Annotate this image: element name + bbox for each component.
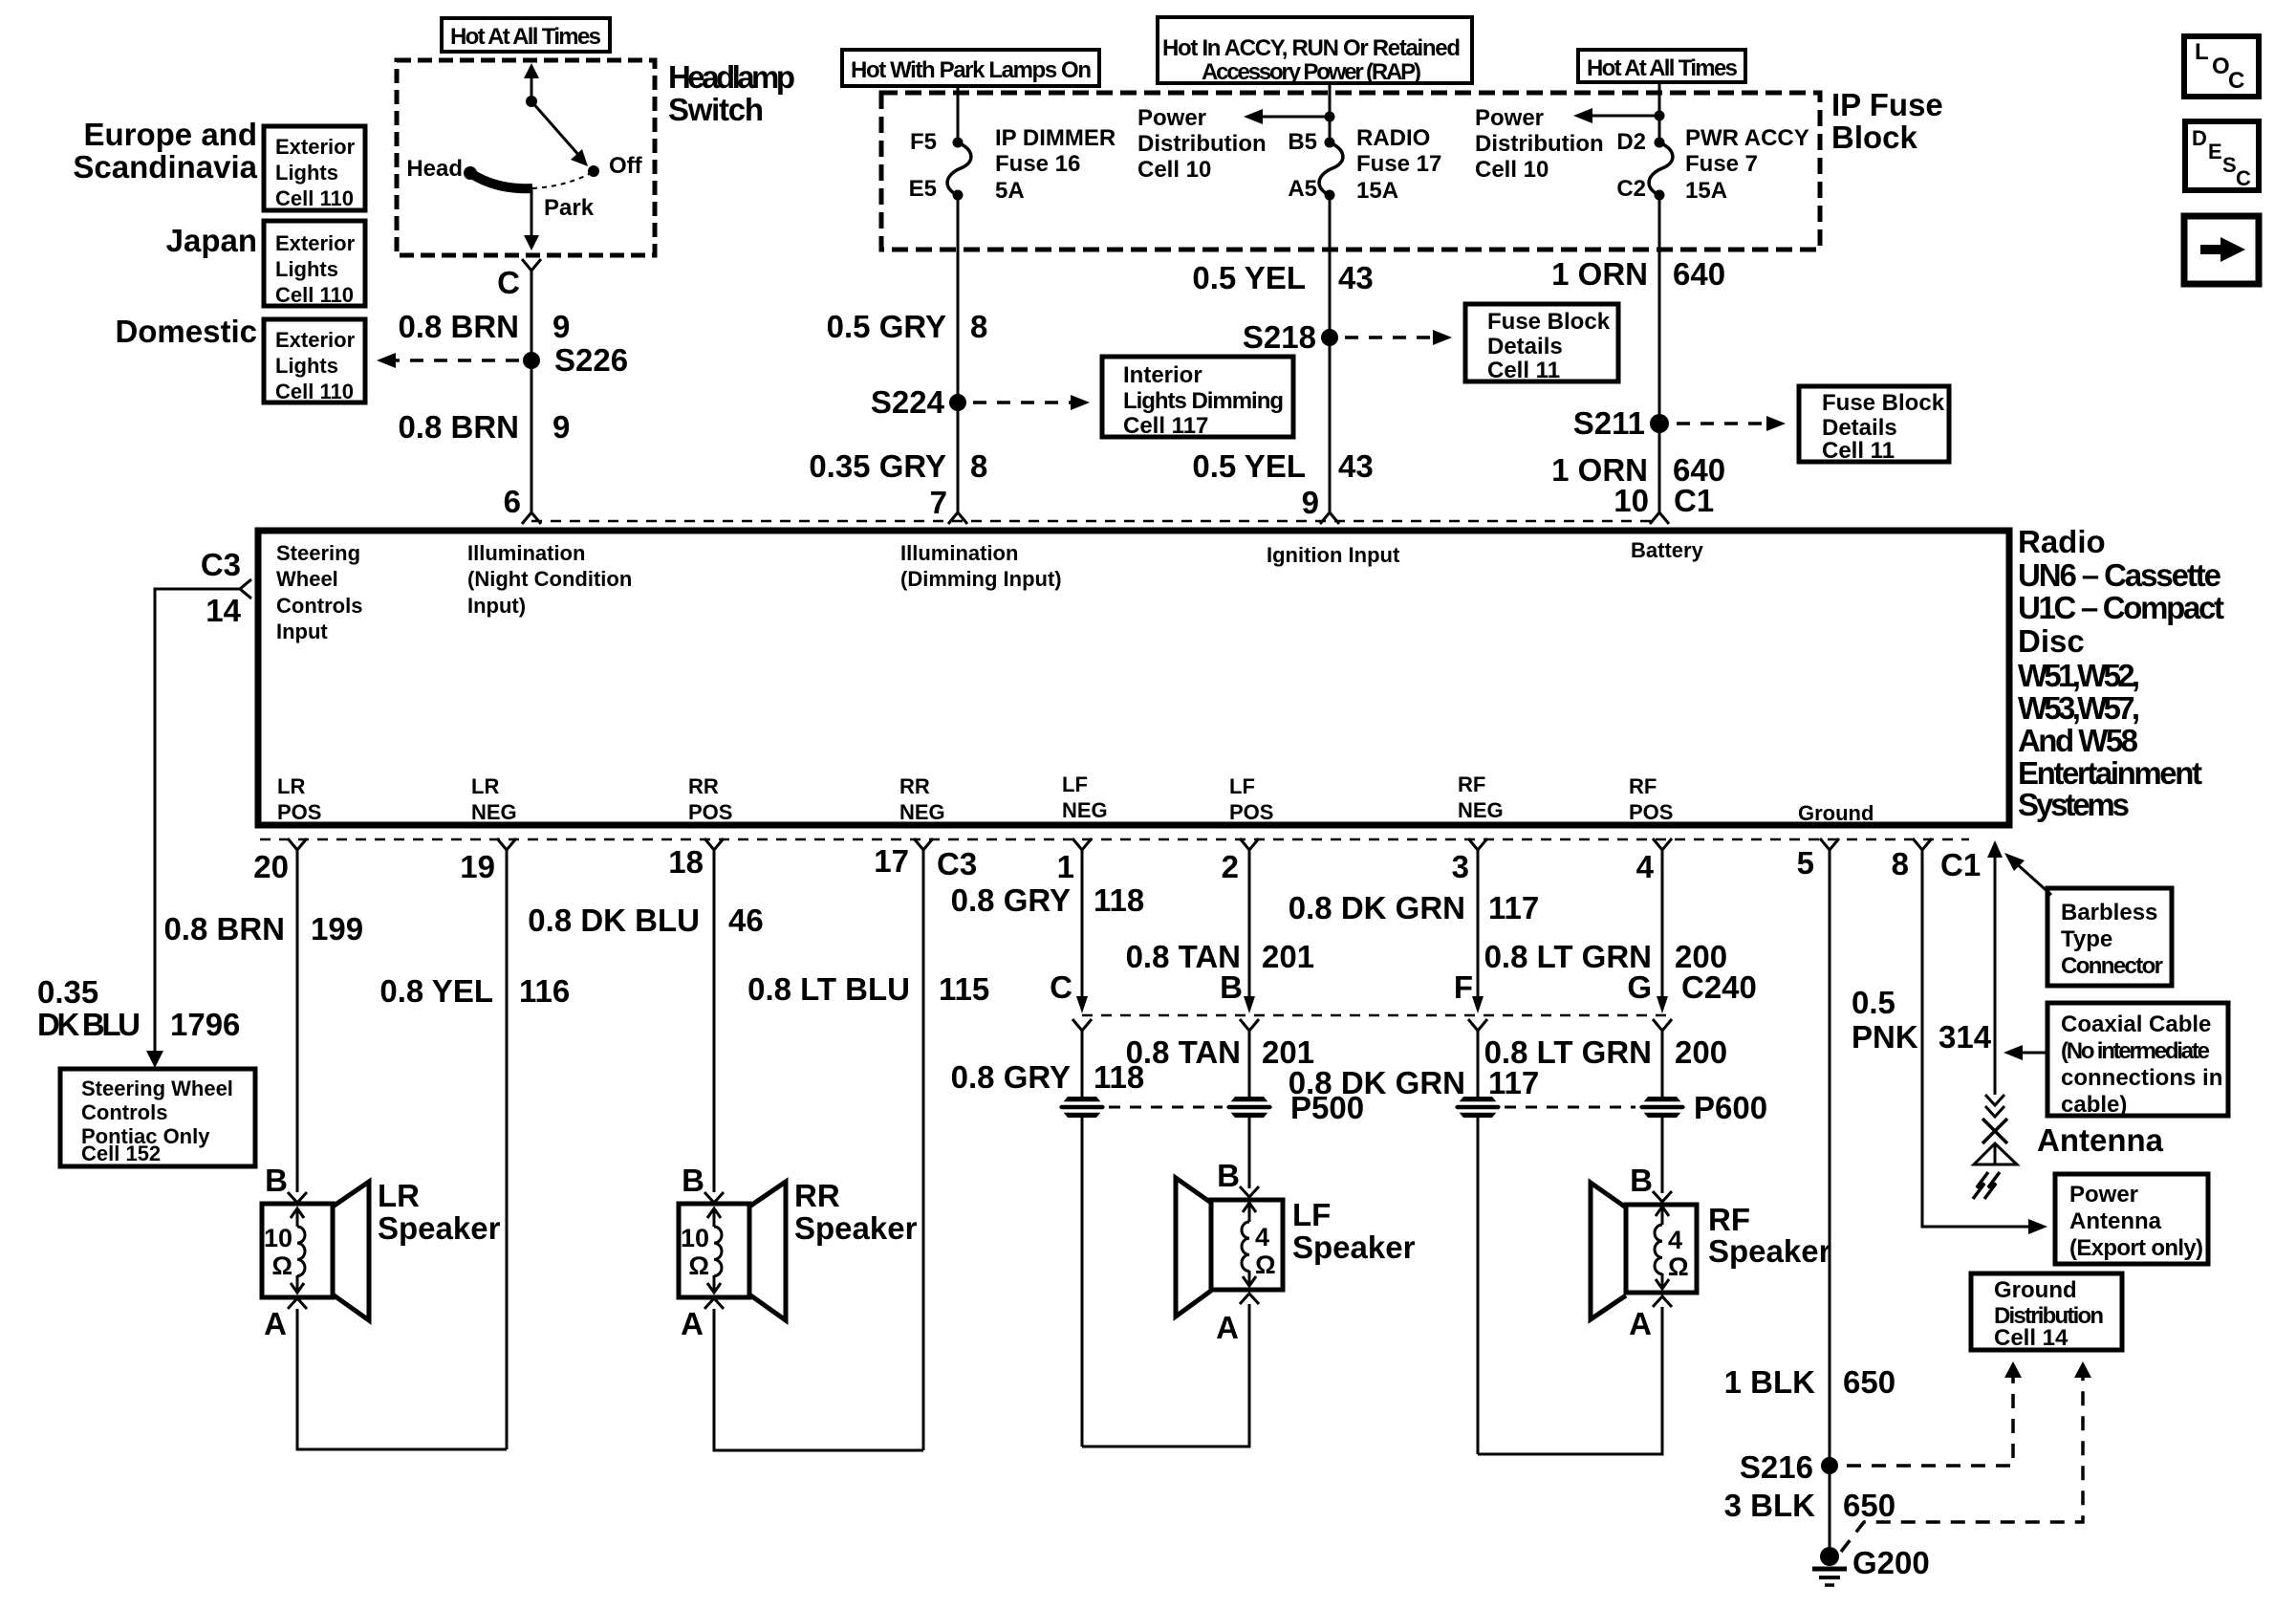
svg-text:C2: C2 — [1616, 176, 1646, 202]
arrowhead up to ground distribution (left) — [2004, 1361, 2022, 1378]
svg-text:0.8 YEL: 0.8 YEL — [379, 973, 493, 1009]
svg-text:0.8 DK BLU: 0.8 DK BLU — [528, 903, 700, 938]
connector fork at LR speaker pin A — [288, 1298, 307, 1309]
wire: LF POS 0.8 TAN 201 upper — [1248, 850, 1251, 1000]
junction dot to power distribution arrow (radio fuse) — [1325, 112, 1335, 122]
wire: feed from RAP box into fuse block — [1329, 83, 1332, 142]
power source label: Hot At All Times (headlamp switch feed) — [442, 18, 610, 52]
svg-text:Radio: Radio — [2018, 524, 2106, 559]
svg-text:15A: 15A — [1685, 178, 1727, 204]
svg-text:S224: S224 — [871, 384, 945, 420]
svg-text:201: 201 — [1262, 939, 1314, 974]
svg-text:4: 4 — [1668, 1226, 1682, 1254]
svg-text:RADIO: RADIO — [1356, 125, 1430, 151]
connector fork at radio pin 6 — [522, 512, 541, 524]
svg-text:Cell 117: Cell 117 — [1123, 413, 1208, 439]
svg-text:Lights: Lights — [275, 257, 338, 281]
wire: LF speaker return — [1082, 1304, 1249, 1447]
wire: RR NEG 0.8 LT BLU 115 — [922, 850, 925, 1450]
wire: 0.5 PNK 314 power antenna feed — [1922, 850, 2032, 1227]
svg-text:8: 8 — [1892, 846, 1909, 881]
dashed reference from G200 to ground distribution — [1841, 1378, 2083, 1552]
arrowhead into steering wheel controls box — [146, 1051, 163, 1068]
arrowhead into Fuse Block Details box — [1433, 330, 1452, 345]
ground G200 — [1812, 1547, 1847, 1585]
svg-text:POS: POS — [277, 800, 321, 824]
svg-text:B: B — [1630, 1163, 1653, 1198]
svg-text:118: 118 — [1094, 882, 1144, 918]
bottom connector dashed line at radio — [260, 838, 1969, 841]
svg-text:Illumination: Illumination — [467, 541, 585, 565]
LR speaker — [262, 1182, 369, 1320]
RR speaker impedance label 10 ohm — [681, 1224, 709, 1280]
connector fork at LR speaker pin B — [288, 1192, 307, 1203]
svg-text:Ω: Ω — [1255, 1251, 1276, 1279]
svg-text:A5: A5 — [1288, 176, 1317, 202]
svg-text:115: 115 — [939, 971, 989, 1007]
svg-text:Domestic: Domestic — [115, 314, 257, 349]
svg-text:Connector: Connector — [2061, 953, 2163, 979]
svg-text:14: 14 — [206, 593, 241, 628]
svg-text:Interior: Interior — [1123, 362, 1202, 388]
svg-text:9: 9 — [552, 309, 570, 344]
svg-text:S218: S218 — [1243, 319, 1316, 355]
svg-text:5: 5 — [1797, 845, 1814, 881]
svg-text:POS: POS — [1229, 800, 1273, 824]
svg-text:640: 640 — [1673, 256, 1725, 292]
svg-text:Wheel: Wheel — [276, 567, 338, 591]
svg-text:Accessory Power (RAP): Accessory Power (RAP) — [1202, 59, 1421, 85]
svg-text:S216: S216 — [1740, 1449, 1813, 1485]
RR speaker name label — [794, 1178, 918, 1246]
svg-text:650: 650 — [1843, 1488, 1895, 1523]
reference arrow to Power Distribution Cell 10 (left) — [1257, 116, 1330, 119]
wire: LF NEG from C240 to P500 — [1081, 1031, 1084, 1097]
radio pin function label: RR POS — [688, 774, 732, 824]
LOC reference box — [2184, 36, 2259, 97]
splice S218 — [1321, 329, 1338, 346]
svg-text:0.8 BRN: 0.8 BRN — [398, 409, 519, 445]
connector fork at RR speaker pin A — [704, 1298, 724, 1309]
arrowhead up to ground distribution (right) — [2074, 1361, 2091, 1378]
antenna symbol — [1973, 1119, 2017, 1199]
wire: RR speaker return — [714, 1309, 923, 1450]
splice S216 — [1821, 1457, 1838, 1474]
headlamp switch dashed outline — [397, 60, 655, 255]
svg-text:UN6 – Cassette: UN6 – Cassette — [2018, 557, 2221, 593]
svg-text:9: 9 — [1302, 485, 1319, 520]
connector fork at switch pin C — [522, 259, 541, 271]
svg-text:Illumination: Illumination — [900, 541, 1018, 565]
power source label: Hot With Park Lamps On — [842, 50, 1099, 86]
reference arrow from barbless connector note to coax — [2014, 861, 2051, 895]
connector chevron at radio C3 — [240, 579, 251, 598]
Exterior Lights Cell 110 box (Europe and Scandinavia) — [264, 126, 365, 210]
wire: steering wheel controls from radio C3 pin 14 — [155, 589, 240, 1056]
svg-text:Systems: Systems — [2018, 787, 2130, 822]
svg-text:117: 117 — [1488, 1065, 1539, 1100]
svg-text:199: 199 — [311, 911, 363, 946]
double chevron at antenna end of coax — [1985, 1095, 2004, 1105]
svg-text:1 BLK: 1 BLK — [1724, 1364, 1816, 1400]
svg-text:POS: POS — [688, 800, 732, 824]
power source label: Hot At All Times (right) — [1578, 50, 1745, 82]
svg-text:LF: LF — [1292, 1197, 1331, 1232]
svg-text:W51,W52,: W51,W52, — [2018, 658, 2140, 693]
wire: RR POS 0.8 DK BLU 46 — [713, 850, 716, 1192]
svg-text:(Export only): (Export only) — [2069, 1235, 2203, 1261]
wire: radio ground 1 BLK 650 — [1829, 850, 1831, 1556]
svg-text:P600: P600 — [1694, 1090, 1767, 1125]
wire: RF POS from P600 to RF speaker pin B — [1661, 1118, 1664, 1193]
wire: 0.5 YEL 43 from fuse 17 to radio pin 9 — [1329, 195, 1332, 512]
svg-text:RF: RF — [1629, 774, 1657, 798]
svg-text:RR: RR — [794, 1178, 840, 1213]
svg-text:Antenna: Antenna — [2037, 1122, 2164, 1158]
svg-text:A: A — [1216, 1310, 1239, 1345]
svg-text:0.5: 0.5 — [1852, 985, 1895, 1020]
svg-text:(Night Condition: (Night Condition — [467, 567, 632, 591]
wire: Park output down — [531, 188, 533, 239]
svg-text:C3: C3 — [201, 547, 241, 582]
svg-text:43: 43 — [1338, 448, 1374, 484]
svg-text:Fuse 17: Fuse 17 — [1356, 151, 1441, 177]
radio pin function label: LF NEG — [1062, 772, 1108, 822]
svg-text:C: C — [497, 265, 520, 300]
RR speaker — [679, 1182, 786, 1320]
radio pin function label: LR POS — [277, 774, 321, 824]
wire: RF NEG 0.8 DK GRN 117 upper — [1477, 850, 1480, 1000]
wire: RF POS 0.8 LT GRN 200 upper — [1661, 850, 1664, 1000]
dashed reference arrow from S224 to Interior Lights Dimming — [973, 401, 1072, 404]
svg-text:S226: S226 — [554, 342, 628, 378]
svg-text:IP Fuse: IP Fuse — [1831, 87, 1943, 122]
dashed reference arrow from S218 to Fuse Block Details — [1345, 336, 1434, 339]
radio pin function label: RF POS — [1629, 774, 1673, 824]
svg-text:Cell 14: Cell 14 — [1994, 1325, 2069, 1351]
RF speaker — [1591, 1183, 1697, 1319]
svg-text:Switch: Switch — [668, 92, 764, 127]
svg-text:0.35: 0.35 — [37, 974, 98, 1010]
junction dot to power distribution arrow (pwr accy fuse) — [1655, 111, 1665, 121]
Barbless Type Connector box — [2047, 888, 2172, 986]
wire: RF speaker return — [1478, 1307, 1662, 1454]
svg-text:2: 2 — [1222, 849, 1239, 884]
svg-text:20: 20 — [253, 849, 289, 884]
svg-text:Distribution: Distribution — [1137, 131, 1267, 157]
svg-text:C: C — [2236, 166, 2251, 190]
svg-text:Japan: Japan — [166, 223, 257, 258]
svg-text:Exterior: Exterior — [275, 328, 356, 352]
splice S211 — [1650, 414, 1669, 433]
svg-text:Power: Power — [1475, 105, 1544, 131]
svg-text:0.8 BRN: 0.8 BRN — [163, 911, 285, 946]
headlamp switch label — [668, 59, 795, 127]
arrowhead up into radio C1 — [1987, 840, 2003, 858]
svg-text:(Dimming Input): (Dimming Input) — [900, 567, 1062, 591]
svg-text:Input: Input — [276, 620, 328, 643]
fuse F17 RADIO 15A — [1319, 138, 1343, 201]
svg-text:118: 118 — [1094, 1059, 1144, 1095]
svg-text:0.8 LT BLU: 0.8 LT BLU — [747, 971, 910, 1007]
svg-text:Fuse Block: Fuse Block — [1487, 309, 1611, 335]
svg-text:A: A — [1629, 1306, 1652, 1341]
dashed reference line from S226 to Domestic exterior lights — [394, 359, 519, 362]
svg-text:0.8 BRN: 0.8 BRN — [398, 309, 519, 344]
wire: LR speaker return — [297, 1309, 507, 1449]
dashed reference arrow from S211 to Fuse Block Details — [1677, 422, 1768, 425]
svg-text:Hot In ACCY, RUN Or Retained: Hot In ACCY, RUN Or Retained — [1162, 35, 1461, 61]
svg-text:Details: Details — [1487, 334, 1563, 359]
connector fork at radio pin 4 — [1653, 838, 1672, 850]
svg-text:Steering: Steering — [276, 541, 360, 565]
connector fork at RF speaker pin A — [1653, 1296, 1672, 1307]
svg-text:Cell 152: Cell 152 — [81, 1142, 161, 1165]
svg-text:B5: B5 — [1288, 129, 1317, 155]
RF speaker name label — [1708, 1202, 1831, 1269]
Exterior Lights Cell 110 box (Domestic) — [264, 319, 365, 403]
svg-text:Fuse 16: Fuse 16 — [995, 151, 1080, 177]
wire: LF NEG from P500 down to return — [1081, 1118, 1084, 1447]
Exterior Lights Cell 110 box (Japan) — [264, 221, 365, 307]
arrowhead up at switch feed — [524, 63, 539, 78]
svg-text:Hot At All Times: Hot At All Times — [450, 24, 601, 50]
wire: LR POS 0.8 BRN 199 — [296, 850, 299, 1192]
svg-text:Hot With Park Lamps On: Hot With Park Lamps On — [851, 57, 1092, 83]
svg-text:LR: LR — [277, 774, 305, 798]
splice S224 — [949, 394, 966, 411]
svg-text:Ground: Ground — [1798, 801, 1874, 825]
Off contact — [588, 165, 599, 177]
svg-text:B: B — [265, 1163, 288, 1198]
svg-text:46: 46 — [728, 903, 764, 938]
svg-text:1796: 1796 — [170, 1007, 240, 1042]
svg-text:8: 8 — [970, 309, 987, 344]
dashed tie line between P600 halves — [1505, 1106, 1635, 1109]
fuse F7 PWR ACCY 15A — [1649, 138, 1673, 201]
svg-text:C3: C3 — [937, 846, 977, 881]
svg-text:Power: Power — [1137, 105, 1206, 131]
svg-text:7: 7 — [930, 485, 947, 520]
wire: 0.8 BRN 9 from S226 to radio pin 6 — [531, 360, 533, 512]
svg-text:10: 10 — [681, 1224, 709, 1252]
svg-text:Lights Dimming: Lights Dimming — [1123, 388, 1284, 414]
switch wiper arc (Head to Park) — [470, 173, 532, 188]
svg-text:LR: LR — [471, 774, 499, 798]
svg-text:Controls: Controls — [81, 1100, 167, 1124]
svg-text:RF: RF — [1708, 1202, 1750, 1237]
reference arrow to Power Distribution Cell 10 (right) — [1587, 115, 1659, 118]
svg-text:117: 117 — [1488, 890, 1539, 925]
svg-text:Exterior: Exterior — [275, 231, 356, 255]
dashed reference from S216 to ground distribution — [1847, 1378, 2013, 1466]
svg-text:3: 3 — [1452, 849, 1469, 884]
svg-text:RF: RF — [1458, 772, 1485, 796]
wire label 0.35 DK BLU — [37, 974, 141, 1042]
connector fork at RF speaker pin B — [1653, 1191, 1672, 1202]
radio pin function label: Illumination (Night Condition Input) — [467, 541, 632, 618]
wire: RF NEG from C240 to P600 — [1477, 1031, 1480, 1097]
svg-text:43: 43 — [1338, 260, 1374, 295]
arrowhead into Fuse Block Details box (lower) — [1766, 416, 1786, 431]
svg-text:8: 8 — [970, 448, 987, 484]
svg-text:Details: Details — [1822, 415, 1897, 441]
svg-text:17: 17 — [874, 843, 909, 879]
radio pin function label: RF NEG — [1458, 772, 1504, 822]
radio component box — [258, 531, 2009, 825]
svg-text:Power: Power — [2069, 1182, 2138, 1207]
Head contact — [464, 166, 477, 180]
power source label: Hot In ACCY, RUN Or Retained Accessory Power (RAP) — [1158, 17, 1472, 85]
svg-text:116: 116 — [519, 973, 570, 1009]
connector fork at radio pin 17 — [914, 838, 933, 850]
svg-text:4: 4 — [1636, 849, 1655, 884]
RF speaker impedance label 4 ohm — [1668, 1226, 1689, 1281]
svg-text:Ω: Ω — [271, 1251, 292, 1280]
svg-text:NEG: NEG — [471, 800, 517, 824]
svg-text:Cell 10: Cell 10 — [1137, 157, 1211, 183]
radio pin function label: Steering Wheel Controls Input — [276, 541, 362, 643]
Coaxial Cable note box — [2047, 1003, 2228, 1118]
svg-text:0.5 YEL: 0.5 YEL — [1192, 448, 1306, 484]
arrowhead on switch arm — [571, 149, 588, 166]
LF speaker name label — [1292, 1197, 1416, 1265]
svg-text:Battery: Battery — [1631, 538, 1704, 562]
svg-text:Distribution: Distribution — [1475, 131, 1604, 157]
LR speaker name label — [378, 1178, 501, 1246]
svg-text:Ignition Input: Ignition Input — [1267, 543, 1400, 567]
in-line connector P500 half on LF POS — [1224, 1097, 1274, 1118]
svg-text:G200: G200 — [1852, 1545, 1930, 1580]
svg-text:0.8 GRY: 0.8 GRY — [951, 1059, 1071, 1095]
svg-text:Exterior: Exterior — [275, 135, 356, 159]
radio pin function label: RR NEG — [899, 774, 945, 824]
Interior Lights Dimming Cell 117 box — [1102, 357, 1293, 439]
svg-text:Ω: Ω — [688, 1251, 709, 1280]
svg-text:6: 6 — [504, 484, 521, 519]
Fuse Block Details Cell 11 box (upper) — [1465, 304, 1618, 383]
reference arrow from coaxial cable note to coax — [2019, 1052, 2046, 1055]
fork below C240 pin G — [1653, 1019, 1672, 1031]
fuse F17 value labels — [1356, 125, 1441, 204]
IP Fuse Block label — [1831, 87, 1943, 155]
fork below C240 pin B — [1240, 1019, 1259, 1031]
connector fork at radio pin 7 — [948, 512, 967, 524]
svg-text:Input): Input) — [467, 594, 526, 618]
connector fork at radio pin 8 — [1913, 838, 1932, 850]
svg-text:NEG: NEG — [1458, 798, 1504, 822]
connector fork at LF speaker pin A — [1240, 1294, 1259, 1304]
top connector C1 dashed line at radio — [531, 520, 1659, 523]
connector fork at radio pin 5 — [1820, 838, 1839, 850]
svg-text:Controls: Controls — [276, 594, 362, 618]
svg-text:IP DIMMER: IP DIMMER — [995, 125, 1116, 151]
coaxial cable from antenna to radio C1 — [1994, 856, 1997, 1095]
Power Distribution Cell 10 label (right) — [1475, 105, 1604, 183]
svg-text:And W58: And W58 — [2018, 723, 2138, 758]
connector fork at radio pin 9 — [1320, 512, 1339, 524]
arrowhead to Domestic exterior lights — [377, 353, 396, 368]
wire: RF NEG from P600 down to return — [1477, 1118, 1480, 1454]
svg-text:Coaxial Cable: Coaxial Cable — [2061, 1012, 2211, 1037]
svg-text:Cell 110: Cell 110 — [275, 380, 354, 403]
svg-text:Speaker: Speaker — [794, 1210, 918, 1246]
svg-text:Disc: Disc — [2018, 623, 2085, 659]
svg-text:1: 1 — [1057, 849, 1074, 884]
radio component name label — [2018, 524, 2224, 822]
svg-text:Type: Type — [2061, 926, 2112, 952]
svg-text:0.35 GRY: 0.35 GRY — [809, 448, 946, 484]
LR speaker impedance label 10 ohm — [264, 1224, 292, 1280]
Power Distribution Cell 10 label (left) — [1137, 105, 1267, 183]
svg-text:G: G — [1627, 969, 1652, 1005]
svg-text:C: C — [1050, 969, 1072, 1005]
forward arrow reference box — [2184, 216, 2259, 284]
svg-text:Entertainment: Entertainment — [2018, 755, 2202, 791]
arrowhead into Interior Lights Dimming box — [1071, 395, 1090, 410]
wire: LF POS from P500 to LF speaker pin B — [1248, 1118, 1251, 1188]
connector fork at radio pin 10 — [1650, 512, 1669, 524]
svg-text:Hot At All Times: Hot At All Times — [1587, 55, 1738, 81]
svg-text:Cell 11: Cell 11 — [1487, 358, 1560, 383]
svg-text:C1: C1 — [1940, 847, 1981, 882]
LF speaker — [1176, 1178, 1283, 1316]
connector fork at radio pin 1 — [1072, 838, 1092, 850]
svg-text:NEG: NEG — [1062, 798, 1108, 822]
svg-text:650: 650 — [1843, 1364, 1895, 1400]
wire label 0.5 PNK — [1852, 985, 1918, 1055]
svg-text:P500: P500 — [1290, 1090, 1364, 1125]
LF speaker impedance label 4 ohm — [1255, 1223, 1276, 1279]
svg-text:Cell 110: Cell 110 — [275, 283, 354, 307]
radio pin function label: LF POS — [1229, 774, 1273, 824]
wire: 1 ORN 640 from fuse 7 to radio pin 10 — [1658, 195, 1661, 512]
Ground Distribution Cell 14 box — [1971, 1273, 2122, 1351]
svg-text:Speaker: Speaker — [1708, 1233, 1831, 1269]
svg-text:9: 9 — [552, 409, 570, 445]
fuse F16 IP DIMMER 5A — [947, 138, 971, 201]
svg-text:0.5 YEL: 0.5 YEL — [1192, 260, 1306, 295]
switch arm toward Off — [531, 101, 580, 157]
svg-text:B: B — [682, 1163, 704, 1198]
radio pin function label: Illumination (Dimming Input) — [900, 541, 1062, 591]
svg-text:RR: RR — [688, 774, 719, 798]
svg-text:cable): cable) — [2061, 1092, 2127, 1118]
svg-text:Lights: Lights — [275, 354, 338, 378]
svg-text:PNK: PNK — [1852, 1019, 1918, 1055]
svg-text:(No intermediate: (No intermediate — [2061, 1038, 2210, 1064]
splice S226 — [523, 352, 540, 369]
wire: switch feed to Hot At All Times — [531, 71, 533, 101]
svg-text:U1C – Compact: U1C – Compact — [2018, 590, 2224, 625]
wire: 0.5 GRY 8 from fuse 16 to radio pin 7 — [957, 195, 960, 512]
connector fork at radio pin 3 — [1468, 838, 1487, 850]
svg-text:LF: LF — [1229, 774, 1255, 798]
svg-text:Speaker: Speaker — [378, 1210, 501, 1246]
fork below C240 pin F — [1468, 1019, 1487, 1031]
Fuse Block Details Cell 11 box (lower) — [1799, 386, 1949, 464]
svg-text:S: S — [2222, 153, 2237, 177]
connector fork at radio pin 2 — [1240, 838, 1259, 850]
fork below C240 pin C — [1072, 1019, 1092, 1031]
svg-text:15A: 15A — [1356, 178, 1398, 204]
wire: 0.8 BRN 9 from switch to S226 — [531, 271, 533, 360]
svg-text:C: C — [2228, 68, 2244, 94]
svg-text:314: 314 — [1939, 1019, 1992, 1055]
connector fork at radio pin 20 — [288, 838, 307, 850]
svg-text:Fuse Block: Fuse Block — [1822, 390, 1945, 416]
svg-text:0.8 GRY: 0.8 GRY — [951, 882, 1071, 918]
